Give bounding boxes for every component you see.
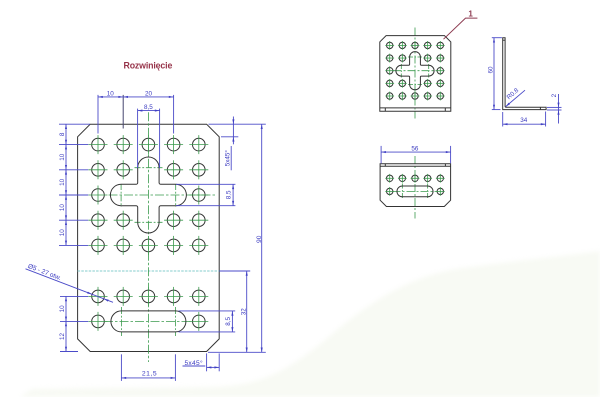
- dim 21,5 extensions: [120, 354, 122, 381]
- bottom outline: [380, 164, 451, 207]
- svg-text:Rozwinięcie: Rozwinięcie: [124, 60, 173, 70]
- hole Ø5 r1c3: [139, 135, 158, 154]
- front cross arc ticks: [408, 56, 422, 58]
- front hole r2c2: [398, 54, 407, 63]
- dim 56 extensions: [380, 146, 382, 163]
- front hole r5c5: [436, 92, 445, 101]
- front cross cutout: [396, 52, 434, 90]
- dim 34 line: [503, 123, 546, 125]
- bottom hole rBc5: [436, 187, 445, 196]
- svg-text:60: 60: [487, 66, 494, 74]
- front hole r5c2: [398, 92, 407, 101]
- dim 60 line: [493, 38, 495, 110]
- dim 8,5 top extensions: [137, 109, 139, 168]
- front flange tick right: [444, 108, 446, 111]
- row3 horizontal centerline: [109, 194, 217, 196]
- left chain arrows: [65, 124, 67, 129]
- slot cutout: [111, 311, 186, 332]
- hole Ø5 r4c2: [114, 211, 133, 230]
- svg-text:90: 90: [256, 235, 263, 243]
- svg-text:R0.8: R0.8: [506, 87, 521, 101]
- front hole r5c1: [385, 92, 394, 101]
- dim 21,5 line: [121, 377, 175, 379]
- svg-text:8: 8: [59, 132, 66, 136]
- front hole r2c4: [423, 54, 432, 63]
- side top cap tick: [503, 39, 505, 41]
- svg-text:10: 10: [59, 204, 66, 212]
- hole Ø5 r2c5: [189, 160, 208, 179]
- dim 5x45 top-right extensions: [209, 123, 266, 125]
- front hole r1c2: [398, 41, 407, 50]
- hole Ø5 r6c5: [189, 287, 208, 306]
- svg-text:12: 12: [59, 333, 66, 341]
- svg-text:10: 10: [59, 305, 66, 313]
- bottom hole rAc3: [411, 174, 420, 183]
- front hole r4c4: [423, 79, 432, 88]
- svg-text:5x45°: 5x45°: [224, 150, 232, 167]
- front hole r1c3: [411, 41, 420, 50]
- lower left chain line: [65, 296, 67, 351]
- cross left arc tick: [120, 184, 122, 207]
- bend line: [78, 270, 220, 272]
- svg-text:21,5: 21,5: [142, 370, 157, 377]
- side end cap tick: [539, 107, 541, 109]
- svg-text:8,5: 8,5: [225, 317, 232, 326]
- leader 1: [444, 18, 478, 39]
- hole Ø5 r4c5: [189, 211, 208, 230]
- hole Ø5 r1c4: [164, 135, 183, 154]
- svg-text:34: 34: [520, 117, 528, 124]
- hole Ø5 r4c4: [164, 211, 183, 230]
- svg-text:2: 2: [551, 93, 558, 97]
- dim top line: [98, 96, 174, 98]
- front hole r4c5: [436, 79, 445, 88]
- front hole r5c3: [411, 92, 420, 101]
- bottom tick left: [384, 164, 386, 166]
- bottom hole rAc2: [398, 174, 407, 183]
- hole Ø5 r6c2: [114, 287, 133, 306]
- dim 2 line: [558, 94, 560, 124]
- front horizontal centerline: [394, 70, 437, 72]
- dim 8,5 cross line: [232, 184, 234, 205]
- svg-text:8,5: 8,5: [226, 190, 233, 199]
- bottom slot cutout: [397, 186, 433, 197]
- left chain dimension line: [65, 124, 67, 245]
- dim 8,5 slot extensions: [179, 310, 236, 312]
- watermark blob: [20, 251, 600, 397]
- svg-text:8,5: 8,5: [144, 104, 153, 111]
- left chain ticks: [59, 123, 90, 125]
- hole Ø5 r3c1: [89, 186, 108, 205]
- svg-text:10: 10: [59, 153, 66, 161]
- bottom slot arc ticks: [401, 184, 403, 200]
- hole Ø5 r6c3: [139, 287, 158, 306]
- hole Ø5 r5c1: [89, 236, 108, 255]
- bottom inner line: [380, 165, 451, 167]
- bottom hole rAc4: [423, 174, 432, 183]
- svg-text:20: 20: [145, 90, 153, 97]
- front hole r4c2: [398, 79, 407, 88]
- front hole r3c1: [385, 66, 394, 75]
- cross right arc tick: [175, 184, 177, 207]
- front vertical centerline: [414, 28, 416, 119]
- front outline: [380, 36, 451, 112]
- bottom hole rBc1: [385, 187, 394, 196]
- dim 8,5 cross extensions: [176, 183, 235, 185]
- hole Ø5 r7c5: [189, 312, 208, 331]
- front flange tick left: [384, 108, 386, 111]
- hole Ø5 r5c4: [164, 236, 183, 255]
- svg-text:10: 10: [107, 90, 115, 97]
- svg-text:1: 1: [468, 10, 473, 19]
- front hole r3c5: [436, 66, 445, 75]
- hole Ø5 r7c1: [89, 312, 108, 331]
- dim 8,5 slot line: [231, 311, 233, 332]
- cross bottom arc tick: [135, 221, 163, 223]
- dim 8,5 top line: [138, 110, 160, 112]
- dim 56 line: [381, 151, 451, 153]
- svg-text:Ø5 - 27 otw.: Ø5 - 27 otw.: [27, 263, 62, 282]
- dim top 10/20 extension lines: [97, 95, 99, 134]
- dim R0.8 leader: [506, 90, 525, 106]
- hole Ø5 r1c1: [89, 135, 108, 154]
- svg-text:10: 10: [59, 229, 66, 237]
- svg-text:32: 32: [240, 308, 247, 316]
- hole Ø5 r2c1: [89, 160, 108, 179]
- front hole r1c4: [423, 41, 432, 50]
- dim 5x45 bottom extensions: [206, 353, 208, 371]
- hole Ø5 r4c1: [89, 211, 108, 230]
- bottom tick right: [444, 164, 446, 166]
- cross cutout: [110, 157, 186, 233]
- hole Ø5 r6c1: [89, 287, 108, 306]
- dim 32 line: [246, 271, 248, 352]
- bottom vertical centerline: [414, 156, 416, 219]
- dim 60 extensions: [492, 37, 502, 39]
- hole Ø5 r6c4: [164, 287, 183, 306]
- hole Ø5 r5c2: [114, 236, 133, 255]
- slot horizontal centerline: [104, 320, 193, 322]
- dim 32 extensions: [219, 270, 250, 272]
- dim 5x45 top-right line: [232, 117, 234, 145]
- side outline: [503, 38, 546, 110]
- hole Ø5 r3c5: [189, 186, 208, 205]
- front flange inner line: [380, 107, 451, 109]
- hole Ø5 r1c5: [189, 135, 208, 154]
- hole Ø5 r5c5: [189, 236, 208, 255]
- front hole r1c5: [436, 41, 445, 50]
- dim 2 extensions: [547, 106, 562, 108]
- dim 90 line: [261, 124, 263, 352]
- front hole r4c1: [385, 79, 394, 88]
- dim 5x45 bottom line: [207, 366, 220, 368]
- cross top arc tick: [135, 167, 163, 169]
- hole Ø5 r2c4: [164, 160, 183, 179]
- hole Ø5 r2c2: [114, 160, 133, 179]
- hole Ø5 r5c3: [139, 236, 158, 255]
- slot left arc tick: [120, 307, 122, 336]
- dim 34 extensions: [502, 112, 504, 127]
- leader Ø5 - 27 otw.: [26, 269, 114, 303]
- front hole r2c1: [385, 54, 394, 63]
- slot right arc tick: [174, 307, 176, 336]
- part outline: [78, 124, 220, 351]
- front hole r2c5: [436, 54, 445, 63]
- main vertical centerline: [147, 112, 149, 362]
- hole Ø5 r1c2: [114, 135, 133, 154]
- svg-text:56: 56: [411, 145, 419, 152]
- svg-text:10: 10: [59, 178, 66, 186]
- front hole r5c4: [423, 92, 432, 101]
- front hole r1c1: [385, 41, 394, 50]
- bottom hole rAc5: [436, 174, 445, 183]
- bottom slot horizontal centerline: [393, 190, 438, 192]
- bottom hole rAc1: [385, 174, 394, 183]
